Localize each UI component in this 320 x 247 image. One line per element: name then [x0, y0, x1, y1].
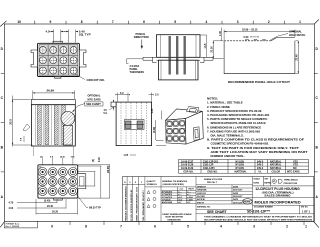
svg-text:4 PLACES: 4 PLACES — [162, 191, 173, 194]
section view dim 2.0 — [149, 93, 152, 102]
punch view flange hooks — [153, 57, 205, 62]
dia 6.20 typ leader — [76, 194, 88, 208]
svg-text:DATE: DATE — [233, 192, 239, 195]
iso right tab — [193, 127, 199, 141]
svg-text:7: 7 — [120, 225, 122, 229]
quality symbols block — [145, 177, 161, 222]
svg-text:1 PLACE: 1 PLACE — [162, 198, 171, 201]
svg-text:CIRCUIT NO.: CIRCUIT NO. — [87, 78, 105, 82]
cutout top bumps — [246, 40, 266, 41]
svg-text:APPR BY: APPR BY — [197, 198, 206, 201]
svg-text:MOLEX INCORPORATED: MOLEX INCORPORATED — [255, 200, 301, 205]
punch direction arrow — [141, 40, 143, 48]
scale row — [196, 213, 314, 215]
svg-text:23.40: 23.40 — [296, 54, 299, 61]
svg-text:5: 5 — [174, 20, 176, 24]
svg-text:(22.00): (22.00) — [107, 166, 110, 174]
svg-text:(UNLESS SPECIFIED): (UNLESS SPECIFIED) — [163, 184, 185, 186]
svg-text:RECOMMENDED PANEL HOLE CUTOUT: RECOMMENDED PANEL HOLE CUTOUT — [228, 81, 291, 84]
rear view right dims rotated — [78, 165, 110, 198]
svg-text:1 OF 1: 1 OF 1 — [302, 209, 310, 213]
svg-text:2: 2 — [286, 225, 288, 229]
svg-text:(5): (5) — [92, 159, 95, 162]
svg-text:EC NO: UCP2019-2648 REV A2: EC NO: UCP2019-2648 REV A2 — [130, 189, 133, 222]
svg-text:SEE CHART: SEE CHART — [86, 103, 101, 106]
section view body — [111, 102, 152, 145]
svg-text:OPTIONAL: OPTIONAL — [88, 94, 101, 97]
front view cavity shading — [39, 45, 77, 75]
svg-text:ENG NO.: ENG NO. — [208, 170, 218, 173]
punch view inner walls — [161, 35, 197, 80]
svg-text:molex: molex — [243, 200, 251, 203]
svg-text:1.05: 1.05 — [151, 108, 154, 113]
svg-text:±3°: ±3° — [187, 202, 190, 204]
svg-text:3: 3 — [237, 20, 239, 24]
front view inner wall — [39, 45, 78, 76]
rear view top dim callouts — [43, 158, 73, 165]
svg-text:DATE: DATE — [233, 185, 239, 188]
punch view lower body — [159, 60, 199, 80]
svg-text:ESP. NO.: ESP. NO. — [184, 170, 194, 173]
extension lines to rear view — [34, 146, 74, 156]
front view cavity crosses — [40, 47, 76, 73]
side zone ticks — [1, 73, 318, 172]
svg-text:SD-3191-12P***: SD-3191-12P*** — [247, 209, 271, 213]
dimension 4.5 — [49, 30, 65, 43]
rear view right ear — [78, 174, 86, 189]
svg-text:9: 9 — [51, 225, 53, 229]
front view circles (12 cavities) — [39, 47, 77, 75]
svg-text:THIRD ANGLE: THIRD ANGLE — [284, 179, 299, 182]
svg-text:UL: UL — [259, 170, 263, 173]
bottom zone ticks — [36, 221, 304, 225]
svg-text:METRIC: METRIC — [264, 183, 272, 185]
cutout top dim 32.89 — [224, 30, 295, 41]
svg-text:8: 8 — [81, 20, 83, 24]
svg-text:10: 10 — [17, 20, 21, 24]
dimension 26.96 — [33, 91, 75, 100]
optional mtg ears leader — [73, 104, 85, 113]
front view right mounting ear — [79, 50, 86, 67]
bottom zone numbers — [51, 225, 307, 229]
svg-text:THIS DRAWING CONTAINS INFORMAT: THIS DRAWING CONTAINS INFORMATION THAT I… — [204, 215, 314, 218]
front view top latch tab — [53, 41, 63, 43]
svg-text:CHK'D BY: CHK'D BY — [197, 193, 207, 195]
svg-text:INCORPORATED AND SHOULD NOT BE: INCORPORATED AND SHOULD NOT BE USED WITH… — [204, 218, 313, 221]
svg-text:Ø6.20 TYP: Ø6.20 TYP — [89, 207, 101, 210]
svg-text:4: 4 — [206, 20, 208, 24]
iso top latch — [187, 107, 199, 113]
iso view front face — [166, 119, 186, 145]
svg-text:DATE: DATE — [233, 198, 239, 201]
svg-text:7(9): 7(9) — [71, 157, 75, 159]
svg-text:SYMBOLS: SYMBOLS — [147, 184, 158, 186]
svg-text:2019/10/17: 2019/10/17 — [233, 190, 242, 192]
svg-text:THICKNESS: THICKNESS — [130, 71, 145, 74]
section view right dim (3.29) — [155, 120, 157, 140]
svg-text:PSN TH: PSN TH — [197, 202, 205, 204]
svg-text:DRAWN STYLE PER: DRAWN STYLE PER — [204, 178, 223, 181]
dim 14.5 left of cutout — [213, 41, 223, 59]
circuit no leader — [75, 74, 85, 80]
svg-text:4.70: 4.70 — [9, 201, 14, 204]
svg-text:DOCUMENT NUMBER: DOCUMENT NUMBER — [254, 207, 273, 209]
section view hidden lines — [121, 103, 147, 146]
svg-text:DIRECTION: DIRECTION — [134, 35, 149, 39]
svg-text:32.89 ~ 33.15: 32.89 ~ 33.15 — [242, 29, 258, 32]
svg-text:9: 9 — [50, 20, 52, 24]
svg-text:DRWN: PKMADHURANATH 19/10: DRWN: PKMADHURANATH 19/10 — [136, 186, 139, 221]
svg-text:3: 3 — [253, 225, 255, 229]
svg-text:2.0: 2.0 — [155, 94, 159, 97]
optional mtg ear boss (sectioned circle) — [61, 112, 75, 146]
revision vertical text block — [123, 177, 145, 222]
top zone ticks — [35, 21, 285, 24]
svg-text:SEE CHART: SEE CHART — [207, 210, 228, 214]
svg-text:PRODUCT CUSTOMER DRAWING: PRODUCT CUSTOMER DRAWING — [124, 186, 127, 221]
rear view bottom dims — [17, 199, 78, 215]
svg-text:1: 1 — [305, 225, 307, 229]
punch view dark slots — [169, 36, 186, 75]
svg-text:2019/11/06: 2019/11/06 — [233, 202, 242, 204]
side view flange — [31, 100, 75, 105]
svg-text:(2): (2) — [40, 157, 43, 159]
third angle projection — [253, 177, 314, 186]
general tolerances block — [161, 177, 196, 222]
svg-text:5.00: 5.00 — [244, 36, 249, 39]
svg-text:2 PLACES: 2 PLACES — [162, 196, 173, 199]
svg-text:DIMENSIONS: DIMENSIONS — [168, 219, 182, 221]
svg-text:1.05: 1.05 — [124, 154, 129, 157]
svg-text:5.0: 5.0 — [120, 92, 124, 95]
svg-text:14.5: 14.5 — [204, 43, 207, 48]
svg-text:PROJECTION: PROJECTION — [284, 183, 298, 185]
svg-text:9.40: 9.40 — [98, 157, 101, 162]
svg-text:INCH: INCH — [189, 189, 195, 191]
svg-text:23.36: 23.36 — [211, 46, 214, 53]
section view dim 5.0 — [117, 93, 128, 102]
svg-text:(3.29): (3.29) — [153, 127, 156, 133]
iso small dims bottom-left — [156, 111, 166, 146]
svg-text:DRWN BY: DRWN BY — [197, 186, 207, 188]
molex logo + name row — [253, 197, 314, 205]
svg-text:7: 7 — [112, 20, 114, 24]
sheet border frame — [4, 24, 314, 221]
dimension 5.40 SQ TYP — [64, 30, 78, 43]
proprietary note — [204, 215, 314, 221]
section view latch detail — [125, 120, 145, 130]
dim 23.40 right of cutout (rotated) — [296, 41, 299, 74]
svg-text:mm: mm — [180, 189, 184, 191]
svg-text:(9.4): (9.4) — [60, 156, 65, 159]
svg-text:SCALE: SCALE — [254, 177, 261, 180]
svg-text:±3°: ±3° — [178, 202, 181, 204]
front view body — [38, 43, 80, 76]
iso front cavities — [167, 121, 185, 142]
dimension 23.36 right of punch view (rotated) — [200, 35, 213, 57]
bottom-left format box — [4, 221, 37, 228]
svg-text:30.5: 30.5 — [9, 119, 13, 125]
svg-text:2: 2 — [268, 20, 270, 24]
rear view circuit number labels — [39, 167, 77, 169]
iso view top face — [166, 109, 203, 120]
punch view upper body — [157, 35, 201, 58]
svg-text:26.20: 26.20 — [52, 211, 59, 214]
svg-text:6: 6 — [154, 225, 156, 229]
svg-text:20.40: 20.40 — [47, 205, 54, 208]
svg-text:4.5: 4.5 — [46, 30, 51, 34]
svg-text:8: 8 — [85, 225, 87, 229]
svg-text:NUMBER AND/OR TOOL.: NUMBER AND/OR TOOL. — [211, 154, 246, 158]
svg-text:SQ. TYP: SQ. TYP — [79, 33, 91, 37]
svg-text:SHT NO.: SHT NO. — [301, 207, 309, 209]
rear view circles — [38, 168, 77, 196]
svg-text:MATERIAL: MATERIAL — [235, 170, 248, 173]
front view left mounting ear — [31, 50, 38, 67]
svg-text:MUST BE WITHIN: MUST BE WITHIN — [166, 217, 184, 219]
svg-text:MTG EARS: MTG EARS — [88, 98, 102, 101]
svg-text:GIRIDHAR: GIRIDHAR — [197, 189, 207, 192]
svg-text:PN IYER: PN IYER — [197, 196, 205, 198]
svg-text:GENERAL TOLERANCES: GENERAL TOLERANCES — [162, 180, 188, 183]
svg-text:(5.40): (5.40) — [44, 199, 50, 202]
cutout dim 5.00 — [253, 36, 257, 38]
dimension 30.5 (left, rotated) — [13, 96, 33, 147]
svg-text:FORMAT: A3-L: FORMAT: A3-L — [6, 222, 21, 225]
svg-text:ANGULAR: ANGULAR — [162, 201, 173, 204]
svg-text:DRAFT WHERE APPLICABLE: DRAFT WHERE APPLICABLE — [163, 213, 193, 216]
svg-text:NONE: NONE — [254, 183, 260, 185]
side view hatched ribs — [37, 105, 65, 145]
svg-text:SALES DRAWING: SALES DRAWING — [264, 194, 291, 198]
rear view bottom latch — [54, 198, 63, 200]
svg-text:4: 4 — [220, 225, 222, 229]
svg-text:4.00: 4.00 — [9, 207, 14, 210]
side view thin lines — [36, 105, 61, 145]
punch view panel lines — [143, 57, 213, 60]
svg-text:HOLE DETAIL: HOLE DETAIL — [289, 34, 306, 37]
front view bottom tab — [55, 77, 62, 79]
side zone letters — [1, 47, 319, 199]
svg-text:1.30: 1.30 — [219, 31, 222, 36]
svg-text:3 PLACES: 3 PLACES — [162, 193, 173, 196]
svg-text:MTG EARS: MTG EARS — [287, 170, 300, 173]
panel cutout rectangle — [224, 38, 295, 74]
middle info block — [196, 177, 253, 214]
svg-text:MATERIAL NO.: MATERIAL NO. — [197, 206, 211, 209]
side view body — [32, 105, 76, 146]
top zone numbers — [17, 20, 301, 24]
svg-text:COLOR: COLOR — [272, 170, 281, 173]
small detail symbol — [23, 124, 30, 142]
iso view right face — [185, 111, 203, 144]
dim 1.30 rotated top-left of cutout — [221, 28, 223, 41]
drawing title — [255, 187, 300, 198]
svg-text:CHK: SPRAJAPATI 2019/10/17: CHK: SPRAJAPATI 2019/10/17 — [142, 190, 145, 222]
svg-text:Rev. 1 2004/09: Rev. 1 2004/09 — [6, 225, 20, 228]
svg-text:QUALITY: QUALITY — [147, 180, 157, 183]
svg-text:6: 6 — [143, 20, 145, 24]
svg-text:5: 5 — [187, 225, 189, 229]
doc number row — [299, 205, 301, 214]
svg-text:1: 1 — [299, 20, 301, 24]
svg-text:26.96: 26.96 — [47, 89, 55, 93]
svg-text:PER CNL T: PER CNL T — [207, 182, 218, 184]
svg-text:±.004: ±.004 — [187, 196, 193, 199]
svg-text:2019/10/17: 2019/10/17 — [233, 196, 242, 198]
rear view body — [38, 165, 78, 198]
